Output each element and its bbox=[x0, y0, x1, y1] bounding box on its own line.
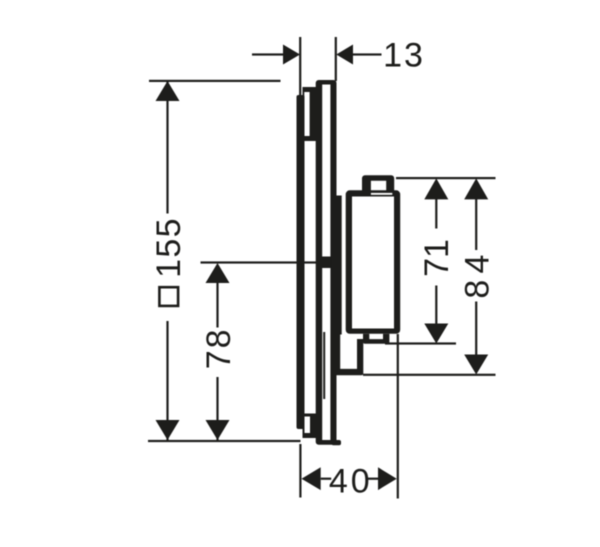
sleeve (basic set) outline bbox=[316, 80, 337, 445]
arrow: dimension 13 right arrowhead bbox=[336, 45, 353, 65]
arrow: dimension 13 left arrowhead bbox=[283, 45, 300, 65]
stem below valve bbox=[331, 334, 363, 375]
wire: extension line left of dim 13 (x=300) bbox=[299, 37, 301, 96]
wire: dimension 13 left stub bbox=[252, 53, 284, 55]
wire: top extension line of dims 71/84 (y=178.1) bbox=[396, 177, 496, 179]
label: square symbol of 155 bbox=[159, 287, 178, 306]
wire: extension line of dim 78 (y=262.5) bbox=[201, 261, 317, 263]
thin inner line bbox=[323, 332, 325, 399]
arrow: dim 155 down arrowhead bbox=[156, 420, 180, 440]
wire: dim line 84 lower segment bbox=[475, 302, 477, 355]
wire: dimension 13 right stub bbox=[353, 53, 382, 55]
svg-text:155: 155 bbox=[150, 217, 188, 278]
svg-text:71: 71 bbox=[418, 239, 456, 277]
svg-text:13: 13 bbox=[383, 37, 425, 75]
svg-text:84: 84 bbox=[458, 248, 496, 298]
arrow: dim 84 down arrowhead bbox=[464, 355, 488, 375]
valve bottom cap bbox=[363, 334, 389, 344]
arrow: dim 71 up arrowhead bbox=[424, 178, 448, 199]
mid connection nub bbox=[321, 257, 331, 269]
wire: left extension line of dim 40 (x=300.4) bbox=[299, 444, 301, 498]
white seam between cap flange and body top bbox=[371, 193, 392, 195]
escutcheon plate front face bbox=[297, 95, 305, 429]
wire: dim line 78 lower segment bbox=[216, 377, 218, 440]
valve body outline bbox=[346, 190, 401, 334]
svg-text:40: 40 bbox=[329, 463, 373, 501]
wire: bottom extension line of dims 155/78 (y=441) bbox=[148, 440, 301, 442]
wire: dim line 78 upper segment bbox=[216, 282, 218, 328]
wire: bottom extension line of dim 84 (y=374.8) bbox=[363, 374, 496, 376]
arrow: dim 78 up arrowhead bbox=[206, 263, 230, 283]
svg-text:78: 78 bbox=[200, 327, 238, 369]
arrow: dim 40 right arrowhead bbox=[378, 467, 397, 490]
wire: right extension line of dim 40 (x=397.8) bbox=[397, 334, 399, 499]
wire: dim 40 line left segment bbox=[321, 478, 332, 480]
carrier clip bottom bbox=[303, 414, 317, 439]
wire: dim line 71 lower segment bbox=[435, 286, 437, 324]
valve top cap bbox=[362, 175, 394, 191]
wire: dim 40 line right segment bbox=[368, 478, 379, 480]
wire: dim line 84 upper segment bbox=[475, 199, 477, 250]
wire: dim line 155 upper segment bbox=[166, 82, 168, 214]
wire: extension line right of dim 13 (x=335.8) bbox=[335, 37, 337, 81]
wire: top extension line of dim 155 (y=80.9) bbox=[149, 80, 281, 82]
arrow: dim 84 up arrowhead bbox=[464, 178, 488, 199]
bracket bar bbox=[331, 196, 341, 335]
wire: bottom extension line of dim 71 (y=343.5) bbox=[385, 342, 456, 344]
arrow: dim 78 down arrowhead bbox=[206, 420, 230, 440]
arrow: dim 71 down arrowhead bbox=[424, 324, 448, 344]
carrier clip top bbox=[303, 87, 317, 141]
wire: dim line 71 upper segment bbox=[435, 199, 437, 229]
arrow: dim 155 up arrowhead bbox=[156, 81, 180, 101]
arrow: dim 40 left arrowhead bbox=[302, 467, 321, 490]
wire: dim line 155 lower segment bbox=[166, 321, 168, 440]
sleeve bottom foot bbox=[332, 440, 342, 445]
